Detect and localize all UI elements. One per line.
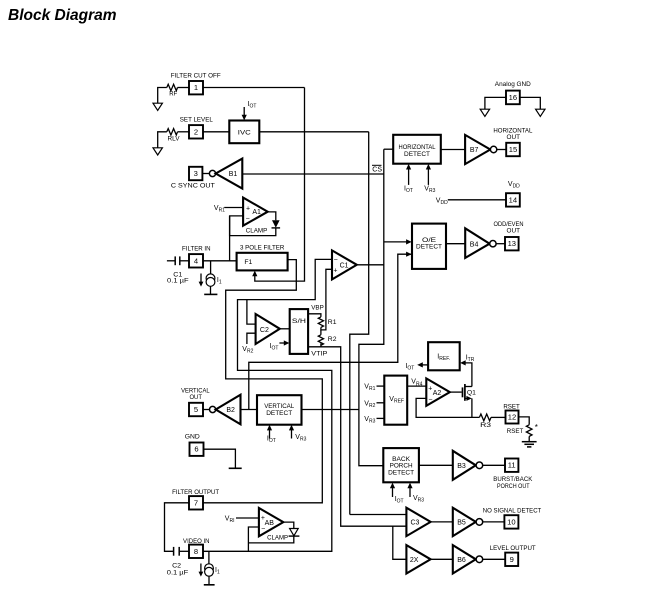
pin 15 bbox=[506, 143, 520, 156]
svg-text:9: 9 bbox=[510, 555, 514, 564]
label GND bbox=[185, 434, 200, 441]
bubble B1 bbox=[209, 170, 215, 176]
wire IOT arrow out of IREF bbox=[405, 362, 428, 371]
diode clamp AB (open) bbox=[289, 529, 300, 537]
svg-text:CLAMP: CLAMP bbox=[246, 227, 268, 234]
pin 4 bbox=[189, 254, 203, 267]
wire VR3 arrow into back porch detect bbox=[407, 483, 424, 504]
svg-text:13: 13 bbox=[508, 239, 516, 248]
label VIDEO IN bbox=[183, 538, 210, 545]
wire pin2 left lead and ground riser bbox=[158, 132, 167, 148]
wire R3 to pin 12 bbox=[491, 416, 506, 418]
svg-text:16: 16 bbox=[509, 93, 517, 102]
svg-text:Block Diagram: Block Diagram bbox=[8, 7, 117, 24]
op-amp AB bbox=[259, 508, 283, 536]
wire pin1 to filter-cutoff bus bbox=[203, 87, 305, 89]
wire AB minus feedback to video node bbox=[248, 527, 259, 551]
svg-text:11: 11 bbox=[508, 461, 516, 470]
svg-text:F1: F1 bbox=[244, 259, 252, 266]
pin 14 bbox=[506, 193, 520, 206]
label IOT at S/H bbox=[270, 343, 279, 352]
wire A1 loop riser to filter-in node bbox=[229, 216, 231, 261]
svg-text:5: 5 bbox=[194, 405, 198, 414]
earth ground at RSET bbox=[522, 436, 537, 447]
wire B4 to pin 13 bbox=[496, 243, 505, 245]
wire pin 7 left to cap C2 bbox=[165, 503, 190, 552]
wire VBP node to R1 bbox=[308, 314, 321, 317]
current source I1 bottom bbox=[199, 564, 220, 577]
label C SYNC OUT bbox=[171, 182, 215, 189]
label VDD above pin 14 bbox=[508, 181, 520, 190]
svg-text:DETECT: DETECT bbox=[388, 470, 414, 477]
label NO SIGNAL DETECT bbox=[483, 508, 542, 515]
wire VR1 stub bbox=[377, 385, 385, 387]
current source I1 top bbox=[199, 274, 222, 287]
block HORIZONTAL DETECT bbox=[393, 135, 441, 164]
svg-text:R3: R3 bbox=[480, 422, 491, 429]
svg-text:OUT: OUT bbox=[189, 394, 202, 401]
pin 2 bbox=[189, 125, 203, 138]
label VR1 at AB clamp bbox=[225, 515, 235, 524]
svg-text:A2: A2 bbox=[433, 390, 442, 397]
arrow ITR into IREF bbox=[460, 360, 466, 365]
svg-text:Analog GND: Analog GND bbox=[495, 81, 531, 88]
wire B2 input to vertical detect bbox=[241, 409, 258, 411]
wire VR3 arrow into vertical detect bbox=[289, 425, 307, 443]
wire C2 bottom input stub from VR2 bbox=[247, 333, 256, 344]
wire B5 to pin 10 bbox=[483, 521, 505, 523]
svg-text:+: + bbox=[428, 385, 432, 392]
inverter B4 bbox=[465, 228, 489, 258]
block F1 three pole filter bbox=[237, 253, 288, 271]
svg-text:15: 15 bbox=[509, 145, 517, 154]
wire pin 16 left ground bbox=[485, 97, 506, 109]
pin 12 bbox=[506, 411, 519, 424]
label VR4 bbox=[411, 379, 422, 388]
svg-text:VTIP: VTIP bbox=[311, 351, 327, 358]
svg-text:NO SIGNAL DETECT: NO SIGNAL DETECT bbox=[483, 508, 542, 515]
svg-text:+: + bbox=[246, 205, 250, 212]
svg-text:3 POLE FILTER: 3 POLE FILTER bbox=[240, 245, 285, 252]
svg-text:6: 6 bbox=[194, 445, 198, 454]
wire F1 output loop to pin7 riser bbox=[203, 260, 322, 503]
wire CS bus bbox=[359, 149, 384, 466]
svg-text:IVC: IVC bbox=[238, 129, 251, 136]
svg-text:2: 2 bbox=[194, 127, 198, 136]
wire VR3 arrow into horizontal detect bbox=[424, 164, 435, 194]
wire C1 cap to pin 4 bbox=[180, 260, 189, 262]
svg-text:C3: C3 bbox=[411, 520, 420, 527]
svg-text:LEVEL OUTPUT: LEVEL OUTPUT bbox=[490, 545, 536, 552]
block VERTICAL DETECT bbox=[257, 395, 302, 425]
svg-text:14: 14 bbox=[509, 195, 517, 204]
wire R1 bottom to C1 plus riser bbox=[321, 269, 332, 330]
wire AB output to diode bbox=[283, 522, 294, 528]
wire B7 to pin 15 bbox=[497, 149, 506, 151]
svg-text:R1: R1 bbox=[328, 319, 337, 326]
bubble B5 bbox=[476, 519, 483, 526]
wire vertical detect right to CS bus bbox=[302, 409, 359, 411]
label FILTER OUTPUT bbox=[172, 489, 219, 496]
svg-text:AB: AB bbox=[265, 520, 275, 527]
svg-text:C2: C2 bbox=[260, 327, 269, 334]
svg-text:B6: B6 bbox=[457, 557, 466, 564]
wire CS into horizontal detect bbox=[384, 148, 393, 150]
wire VREF to A2 bbox=[407, 385, 426, 387]
label VR1 at A1 bbox=[214, 205, 225, 214]
ground bar below I1 bottom bbox=[204, 576, 215, 585]
wire VR3 stub bbox=[377, 417, 385, 419]
label FILTER IN bbox=[182, 245, 211, 252]
wire A2 output to Q1 gate bbox=[450, 391, 462, 393]
wire 2X to B6 bbox=[431, 558, 453, 560]
label VR3 into VREF bbox=[364, 416, 375, 425]
wire RF to pin 1 bbox=[178, 87, 190, 89]
pin 1 bbox=[189, 81, 203, 94]
wire VRI to AB plus bbox=[236, 517, 259, 519]
pin 13 bbox=[505, 237, 519, 250]
transistor Q1 bbox=[463, 384, 477, 401]
svg-text:C SYNC OUT: C SYNC OUT bbox=[171, 182, 215, 189]
svg-text:10: 10 bbox=[507, 517, 515, 526]
star marker bbox=[535, 423, 538, 432]
wire back porch to B3 bbox=[419, 464, 453, 466]
wire pin 4 to F1 bbox=[203, 260, 237, 262]
label VR1 into VREF bbox=[364, 384, 375, 393]
wire IOT arrow into back porch detect bbox=[390, 483, 404, 505]
svg-text:B1: B1 bbox=[229, 171, 238, 178]
inverter B6 bbox=[453, 545, 476, 573]
label 3 POLE FILTER bbox=[240, 245, 285, 252]
capacitor C1 bbox=[167, 256, 189, 284]
resistor R3 bbox=[479, 414, 491, 429]
svg-text:FILTER CUT OFF: FILTER CUT OFF bbox=[171, 72, 221, 79]
svg-text:FILTER IN: FILTER IN bbox=[182, 245, 211, 252]
bubble B7 bbox=[490, 146, 496, 152]
svg-text:7: 7 bbox=[194, 498, 198, 507]
bubble B4 bbox=[490, 241, 496, 247]
svg-text:RSET: RSET bbox=[503, 403, 520, 410]
svg-text:DETECT: DETECT bbox=[266, 410, 292, 417]
pin 16 bbox=[506, 91, 520, 105]
svg-text:SET LEVEL: SET LEVEL bbox=[180, 117, 213, 124]
svg-text:B5: B5 bbox=[457, 520, 466, 527]
svg-text:RF: RF bbox=[169, 91, 177, 98]
wire VTIP bus bbox=[308, 347, 406, 526]
wire C3 to B5 bbox=[431, 521, 453, 523]
label VERTICAL OUT bbox=[181, 387, 210, 401]
bubble B3 bbox=[476, 462, 483, 469]
label VBP bbox=[311, 304, 324, 311]
ground chassis triangle left of pin 16 bbox=[480, 109, 489, 116]
inverter B2 bbox=[216, 395, 241, 425]
label SET LEVEL bbox=[180, 117, 213, 124]
wire C2 top input stub bbox=[247, 300, 256, 325]
wire A1 minus feedback loop bbox=[230, 216, 276, 236]
resistor RLV bbox=[167, 129, 180, 143]
capacitor C2 bbox=[167, 547, 189, 576]
label FILTER CUT OFF bbox=[171, 72, 221, 79]
amp C3 bbox=[406, 508, 430, 536]
svg-text:B2: B2 bbox=[226, 407, 235, 414]
amp C2 bbox=[256, 314, 280, 344]
wire A1 output to diode top bbox=[268, 212, 276, 220]
pin 6 bbox=[190, 443, 204, 456]
label VDD left bbox=[436, 197, 448, 206]
inverter B7 bbox=[465, 135, 490, 164]
svg-text:C1: C1 bbox=[340, 262, 349, 269]
svg-text:OUT: OUT bbox=[507, 227, 521, 234]
wire C2 cap to pin 8 bbox=[180, 550, 189, 552]
pin 5 bbox=[189, 403, 203, 416]
block O/E DETECT bbox=[412, 224, 446, 269]
label ODD/EVEN OUT bbox=[494, 221, 524, 235]
label ITR bbox=[466, 355, 475, 364]
wire C1 output to CS bus bbox=[357, 264, 384, 266]
bubble B2 bbox=[210, 406, 216, 412]
svg-text:VBP: VBP bbox=[311, 304, 324, 311]
ground chassis triangle right of pin 16 bbox=[536, 109, 545, 116]
wire pin 6 to ground bbox=[204, 449, 236, 468]
label CLAMP top bbox=[246, 227, 268, 234]
wire Q1 drain to ITR bbox=[464, 363, 472, 387]
svg-text:R2: R2 bbox=[328, 336, 337, 343]
wire B1 output to CS bus bbox=[242, 173, 383, 175]
label RSET above pin 12 bbox=[503, 403, 520, 410]
wire pin 3 to B1 bubble bbox=[202, 173, 209, 175]
block IREF bbox=[428, 342, 460, 370]
svg-text:3: 3 bbox=[194, 169, 198, 178]
svg-text:RSET: RSET bbox=[507, 428, 524, 435]
svg-text:−: − bbox=[246, 215, 250, 222]
svg-text:S/H: S/H bbox=[292, 318, 306, 325]
label LEVEL OUTPUT bbox=[490, 545, 536, 552]
wire Q1 source down bbox=[471, 398, 473, 417]
wire pin1 left lead and ground riser bbox=[158, 88, 167, 104]
label VTIP bbox=[311, 351, 327, 358]
wire A2 feedback to R3 line bbox=[416, 398, 479, 417]
svg-text:B7: B7 bbox=[470, 147, 479, 154]
arrow into F1 bottom bbox=[252, 271, 257, 277]
wire C2 output to S/H bbox=[280, 328, 290, 330]
wire pin 16 right ground bbox=[520, 97, 541, 109]
block IVC bbox=[229, 121, 259, 144]
svg-text:CS: CS bbox=[372, 167, 382, 174]
block BACK PORCH DETECT bbox=[383, 448, 419, 482]
pin 10 bbox=[504, 515, 518, 528]
wire VTIP branch to 2X input bbox=[393, 526, 407, 559]
wire B6 to pin 9 bbox=[483, 558, 506, 560]
wire horizontal detect to B7 bbox=[441, 149, 465, 151]
wire VR2 stub bbox=[377, 402, 385, 404]
svg-text:0.1 µF: 0.1 µF bbox=[167, 569, 189, 576]
op-amp A2 bbox=[426, 378, 450, 405]
wire VDD to pin 14 bbox=[448, 199, 506, 201]
wire O/E detect to B4 bbox=[446, 243, 465, 245]
wire video node down to current source bottom bbox=[208, 551, 210, 564]
svg-text:Q1: Q1 bbox=[467, 390, 476, 397]
ground chassis triangle at RLV bbox=[153, 148, 162, 155]
wire IOT arrow into vertical detect bbox=[267, 425, 276, 444]
inverter B3 bbox=[453, 451, 476, 480]
svg-text:+: + bbox=[333, 268, 337, 275]
wire pin 5 to B2 bubble bbox=[203, 409, 210, 411]
svg-text:PORCH OUT: PORCH OUT bbox=[497, 483, 530, 490]
resistor RF bbox=[167, 84, 178, 97]
wire IVC output to bus bbox=[259, 131, 368, 133]
wire IVC bus to C3 upper input bbox=[350, 514, 407, 516]
wire IOT arrow into S/H bbox=[279, 340, 289, 345]
label IOT above IVC bbox=[248, 101, 257, 110]
diode clamp A1 (filled) bbox=[272, 220, 281, 228]
wire O/E detect input 1 with arrow bbox=[384, 239, 412, 244]
svg-text:B3: B3 bbox=[457, 463, 466, 470]
svg-text:RLV: RLV bbox=[168, 135, 180, 142]
pin 8 bbox=[189, 545, 203, 558]
bubble B6 bbox=[476, 556, 483, 563]
svg-text:−: − bbox=[334, 257, 338, 264]
svg-text:0.1 µF: 0.1 µF bbox=[167, 278, 189, 285]
amp 2X bbox=[406, 545, 430, 573]
svg-text:DETECT: DETECT bbox=[416, 244, 442, 251]
pin 3 bbox=[189, 167, 202, 180]
label Analog GND bbox=[495, 81, 531, 88]
svg-text:CLAMP: CLAMP bbox=[267, 535, 288, 542]
wire video-in net bbox=[203, 259, 332, 551]
wire filter-cutoff bus down bbox=[255, 88, 305, 282]
svg-text:4: 4 bbox=[194, 256, 198, 265]
svg-text:12: 12 bbox=[508, 413, 516, 422]
svg-text:GND: GND bbox=[185, 434, 200, 441]
op-amp A1 bbox=[243, 198, 268, 226]
pin 11 bbox=[505, 459, 518, 472]
label VR2 at C2 bbox=[242, 346, 253, 355]
wire O/E detect input 2 riser bbox=[249, 252, 412, 410]
block VREF bbox=[384, 376, 407, 425]
amp C1 bbox=[332, 250, 357, 279]
resistor R2 bbox=[318, 330, 336, 345]
wire AB clamp loop bottom bbox=[248, 536, 293, 543]
label HORIZONTAL OUT bbox=[493, 127, 532, 141]
block S/H sample and hold bbox=[290, 309, 308, 354]
label BURST/BACK PORCH OUT bbox=[493, 476, 532, 490]
wire filter-in node down to current source bbox=[210, 261, 212, 274]
pin 7 bbox=[189, 496, 203, 509]
svg-text:DETECT: DETECT bbox=[404, 151, 430, 158]
svg-text:B4: B4 bbox=[470, 241, 479, 248]
ground chassis triangle at RF bbox=[153, 103, 162, 110]
wire VR1 to A1 plus input bbox=[224, 207, 243, 209]
resistor RSET bbox=[507, 425, 532, 437]
wire R2 bottom to VTIP bbox=[320, 343, 322, 347]
wire RLV to pin 2 bbox=[178, 131, 190, 133]
svg-text:2X: 2X bbox=[410, 557, 419, 564]
ground bar at pin 6 bbox=[229, 467, 242, 469]
wire IVC bus down with jog bbox=[350, 132, 369, 515]
wire IOT arrow into IVC top bbox=[242, 107, 247, 120]
ground bar below I1 top bbox=[204, 286, 217, 294]
svg-text:OUT: OUT bbox=[507, 134, 521, 141]
inverter B5 bbox=[453, 508, 476, 536]
wire B3 to pin 11 bbox=[483, 464, 505, 466]
svg-text:1: 1 bbox=[194, 83, 198, 92]
wire pin 12 to RSET resistor bbox=[519, 417, 530, 425]
svg-text:8: 8 bbox=[194, 547, 198, 556]
label CS with overline bbox=[372, 165, 382, 173]
pin 9 bbox=[505, 553, 518, 566]
label VR2 into VREF bbox=[364, 400, 375, 409]
label CLAMP bottom bbox=[267, 535, 288, 542]
svg-text:−: − bbox=[428, 396, 432, 403]
resistor R1 bbox=[318, 317, 336, 328]
wire pin 2 to IVC bbox=[203, 131, 229, 133]
svg-text:A1: A1 bbox=[252, 209, 261, 216]
wire IOT arrow into horizontal detect bbox=[404, 164, 413, 194]
svg-text:FILTER OUTPUT: FILTER OUTPUT bbox=[172, 489, 219, 496]
inverter B1 bbox=[216, 159, 243, 189]
svg-text:*: * bbox=[535, 423, 538, 432]
